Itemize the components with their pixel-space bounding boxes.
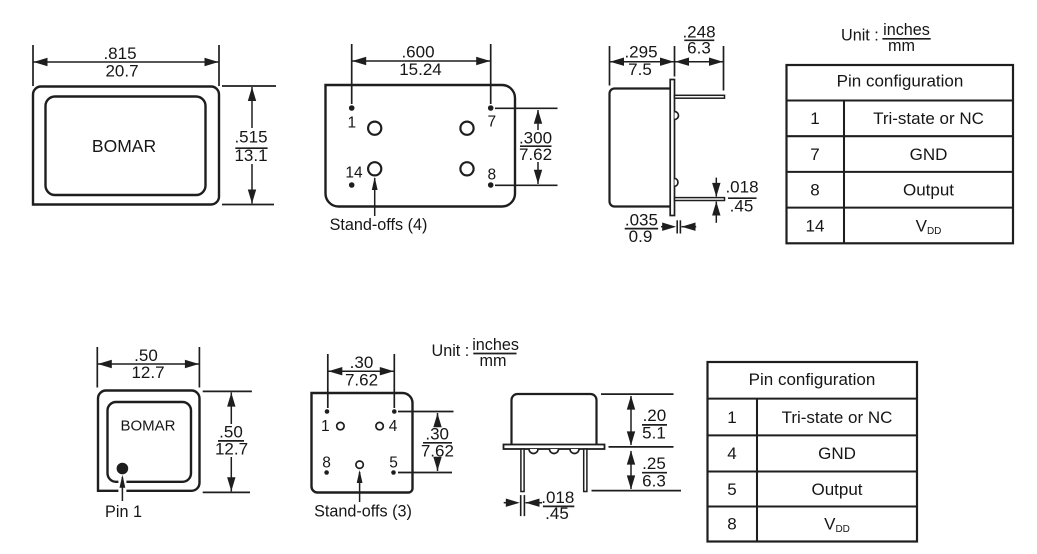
stand-offs (3) leader arrow (359, 472, 361, 502)
stand-offs (4) leader arrow (374, 178, 376, 216)
dimension D10 line upper (230, 392, 232, 424)
svg-text:6.3: 6.3 (687, 39, 711, 58)
dimension D11 extension line right (393, 354, 395, 408)
pin left (U6 side view) (521, 449, 524, 492)
dimension D12 arrow up (433, 413, 441, 427)
table T2 row divider 4 (708, 505, 918, 507)
dimension D13 fraction bar (642, 424, 667, 426)
svg-text:4: 4 (727, 444, 736, 463)
pin 8 dot (U2) (488, 182, 494, 188)
pin configuration table T2 (bottom) (708, 362, 918, 542)
dimension D10 line lower (230, 457, 232, 491)
svg-text:.20: .20 (643, 406, 667, 425)
dimension D14 arrow up (627, 451, 635, 465)
dimension D2 .515/13.1 extension line top (222, 85, 276, 87)
dimension D8 fraction bar (625, 228, 658, 230)
dimension D7 fraction bar (728, 197, 757, 199)
svg-text:7.5: 7.5 (628, 60, 652, 79)
svg-text:7.62: 7.62 (519, 145, 552, 164)
dimension D2 line upper (251, 87, 253, 128)
stand-off circle left (U5) (337, 422, 344, 429)
table T2 row divider 3 (708, 470, 918, 472)
dimension D10 fraction bar (218, 440, 244, 442)
dimension D4 line lower (537, 162, 539, 184)
dimension D6 line (675, 61, 724, 63)
dimension D5 arrow right (660, 58, 674, 66)
svg-text:Stand-offs (4): Stand-offs (4) (330, 216, 428, 234)
dimension D2 line lower (251, 164, 253, 204)
dimension D9 arrow right (185, 360, 199, 368)
svg-text:1: 1 (321, 418, 330, 435)
package U6 body outline (bottom, side view) (512, 394, 597, 445)
svg-text:Unit :: Unit : (432, 342, 470, 360)
package U2 base outline (top-middle, bottom view) (326, 85, 516, 207)
dimension D6 fraction bar (684, 39, 714, 41)
table T1 row divider 4 (787, 207, 1014, 209)
package U3 body outline (top-right, side view) (610, 89, 672, 207)
package U6 base plate (504, 445, 605, 450)
stand-off bump right (U6) (570, 449, 579, 454)
table T2 row divider 2 (708, 434, 918, 436)
svg-text:.600: .600 (401, 43, 434, 62)
svg-text:Unit :: Unit : (841, 27, 879, 45)
dimension D12 .30/7.62 extension line top (398, 411, 454, 413)
svg-text:mm: mm (480, 352, 507, 370)
svg-text:13.1: 13.1 (234, 146, 267, 165)
dimension D2 extension line bottom (222, 204, 274, 206)
dimension D3 line (352, 60, 491, 62)
dimension D9 extension line right (198, 347, 200, 388)
dimension D8 arrow line left (661, 226, 667, 228)
svg-text:Output: Output (811, 480, 862, 499)
svg-text:8: 8 (727, 515, 736, 534)
table T1 column divider (843, 101, 845, 244)
svg-text:8: 8 (322, 455, 331, 472)
dimension D1 arrow left (34, 58, 48, 66)
dimension D10 extension line bottom (203, 491, 250, 493)
dimension D4 arrow up (534, 110, 542, 124)
dimension D5 line (610, 61, 675, 63)
svg-text:.45: .45 (545, 504, 569, 523)
dimension D13 line (630, 396, 632, 445)
svg-text:BOMAR: BOMAR (120, 418, 175, 435)
svg-text:1: 1 (810, 109, 819, 128)
dimension D8 .035/0.9 tick left (676, 220, 678, 233)
package U3 header plate (670, 80, 674, 216)
svg-text:8: 8 (487, 167, 496, 184)
dimension D3 arrow left (352, 57, 366, 65)
svg-text:Tri-state or NC: Tri-state or NC (873, 109, 984, 128)
dimension D4 extension line bottom (495, 184, 558, 186)
table T2 column divider (756, 399, 758, 542)
pin bottom (U3 side view) (675, 198, 725, 201)
dimension D12 fraction bar (423, 442, 452, 444)
svg-text:Pin configuration: Pin configuration (837, 71, 964, 90)
svg-text:4: 4 (389, 418, 398, 435)
dimension D15 fraction bar (543, 505, 574, 507)
dimension D14 line (630, 451, 632, 489)
svg-text:Stand-offs (3): Stand-offs (3) (314, 503, 412, 521)
dimension D10 arrow down (227, 477, 235, 491)
pin 8 dot (U5) (324, 470, 329, 475)
dimension D15 arrow line right (526, 502, 543, 504)
dimension D11 line (328, 370, 395, 372)
dimension D7 arrow up (712, 202, 720, 216)
dimension D1 extension line right (218, 45, 220, 86)
dimension D2 arrow up (248, 87, 256, 101)
pin 1 dot (U2) (349, 105, 355, 111)
dimension D14 fraction bar (642, 472, 667, 474)
stand-off circle bottom-right (U2) (460, 162, 473, 175)
pin configuration table T1 (top) (787, 65, 1014, 243)
svg-text:6.3: 6.3 (642, 472, 666, 491)
pin 4 dot (U5) (392, 409, 397, 414)
table T1 header divider (787, 99, 1014, 101)
dimension D10 .50/12.7 extension line top (203, 390, 252, 392)
stand-off bump middle (U6) (550, 449, 559, 454)
dimension D15 tick right (523, 495, 525, 516)
dimension D9 arrow left (98, 360, 112, 368)
stand-off circle bottom-left (U2) (368, 162, 381, 175)
dimension D12 line upper (437, 413, 439, 427)
dimension D14 .25/6.3 extension line bottom (592, 490, 682, 492)
pin 1 dot (U5) (325, 409, 330, 414)
pin 1 leader arrow gap (118, 478, 126, 496)
pin 5 dot (U5) (391, 470, 396, 475)
dimension D15 arrow line left (504, 502, 511, 504)
svg-text:8: 8 (810, 181, 819, 200)
svg-text:Tri-state or NC: Tri-state or NC (782, 408, 893, 427)
package U4 inner lid line (108, 402, 192, 482)
stand-off circle bottom (U5) (356, 461, 363, 468)
dimension D8 tick right (679, 220, 681, 233)
svg-text:12.7: 12.7 (131, 363, 164, 382)
dimension D3 extension line right (490, 44, 492, 104)
dimension D15 .018/.45 tick left (520, 495, 522, 516)
svg-text:20.7: 20.7 (105, 61, 138, 80)
svg-text:Output: Output (903, 181, 954, 200)
dimension D4 .300/7.62 extension line top (495, 107, 558, 109)
package U1 lid outline (top-left, top view) (33, 87, 219, 205)
dimension D7 arrow down (712, 183, 720, 197)
svg-text:7.62: 7.62 (345, 371, 378, 390)
svg-text:.25: .25 (642, 454, 666, 473)
dimension D11 arrow right (380, 367, 394, 375)
pin top (U3 side view) (675, 95, 725, 98)
stand-off circle top-right (U2) (460, 122, 473, 135)
svg-text:0.9: 0.9 (629, 227, 653, 246)
pin right (U6 side view) (584, 449, 587, 492)
dimension D1 .815/20.7 extension line left (32, 45, 34, 86)
table T2 header divider (708, 398, 918, 400)
dimension D11 arrow left (328, 367, 342, 375)
dimension D4 arrow down (534, 170, 542, 184)
dimension D5 extension line middle (674, 46, 676, 77)
svg-text:.515: .515 (234, 128, 267, 147)
stand-off circle right (U5) (376, 422, 383, 429)
dimension D9 line (97, 363, 199, 365)
svg-text:7.62: 7.62 (421, 442, 454, 461)
dimension D4 line upper (537, 110, 539, 130)
package U1 inner lid line (46, 97, 206, 196)
dimension D2 fraction bar (235, 147, 267, 149)
pin 1 leader arrow (U4) (121, 477, 123, 501)
pin 14 dot (U2) (349, 182, 355, 188)
dimension D13 arrow down (627, 431, 635, 445)
dimension D7 .018/.45 line upper (715, 178, 717, 197)
dimension D5 arrow left (610, 58, 624, 66)
dimension D8 arrow line right (682, 226, 697, 228)
dimension D13 .20/5.1 extension line top (601, 393, 674, 395)
svg-text:1: 1 (727, 408, 736, 427)
svg-text:7: 7 (487, 114, 496, 131)
stand-off circle top-left (U2) (368, 122, 381, 135)
svg-text:15.24: 15.24 (399, 60, 442, 79)
svg-text:Pin configuration: Pin configuration (749, 370, 876, 389)
dimension D14 arrow down (627, 475, 635, 489)
dimension D2 arrow down (248, 190, 256, 204)
svg-text:5: 5 (389, 455, 398, 472)
dimension D13 arrow up (627, 396, 635, 410)
dimension D3 arrow right (476, 57, 490, 65)
svg-text:GND: GND (910, 145, 948, 164)
svg-text:12.7: 12.7 (215, 440, 248, 459)
dimension D12 line lower (437, 458, 439, 471)
dimension D4 fraction bar (520, 145, 552, 147)
table T1 row divider 3 (787, 171, 1014, 173)
dimension D9 .50/12.7 extension line left (96, 347, 98, 388)
svg-text:mm: mm (888, 37, 915, 55)
package U4 lid outline (bottom-left, top view) (98, 391, 200, 491)
dimension D11 .30/7.62 extension line left (327, 354, 329, 408)
svg-text:14: 14 (806, 216, 825, 235)
svg-text:Pin 1: Pin 1 (105, 503, 142, 521)
svg-text:14: 14 (345, 165, 363, 182)
pin 7 dot (U2) (488, 105, 494, 111)
dimension D6 arrow left (675, 58, 689, 66)
dimension D13 extension line middle (609, 446, 674, 448)
svg-text:.45: .45 (730, 197, 754, 216)
dimension D12 arrow down (433, 457, 441, 471)
table T1 row divider 2 (787, 135, 1014, 137)
dimension D12 extension line bottom (398, 472, 452, 474)
dimension D5 .295/7.5 extension line left (609, 46, 611, 86)
svg-text:BOMAR: BOMAR (92, 136, 156, 156)
dimension D7 line lower (715, 202, 717, 223)
dimension D3 .600/15.24 extension line left (351, 44, 353, 104)
dimension D1 line (33, 61, 219, 63)
dimension D6 .248/6.3 extension line right (723, 46, 725, 91)
stand-off bump left (U6) (529, 449, 538, 454)
svg-text:5: 5 (727, 480, 736, 499)
svg-text:.295: .295 (624, 43, 657, 62)
svg-text:1: 1 (347, 115, 356, 132)
svg-text:5.1: 5.1 (642, 424, 666, 443)
dimension D10 arrow up (227, 393, 235, 407)
svg-text:.018: .018 (725, 178, 758, 197)
svg-text:.30: .30 (350, 353, 374, 372)
svg-text:7: 7 (810, 145, 819, 164)
pin 1 dot (U4) (117, 463, 129, 475)
stand-off bump bottom (U3) (675, 178, 678, 186)
package U5 base outline (bottom-middle, bottom view) (312, 393, 413, 493)
svg-text:GND: GND (818, 444, 856, 463)
dimension D1 arrow right (205, 58, 219, 66)
stand-off bump top (U3) (675, 112, 679, 120)
dimension D6 arrow right (709, 58, 723, 66)
